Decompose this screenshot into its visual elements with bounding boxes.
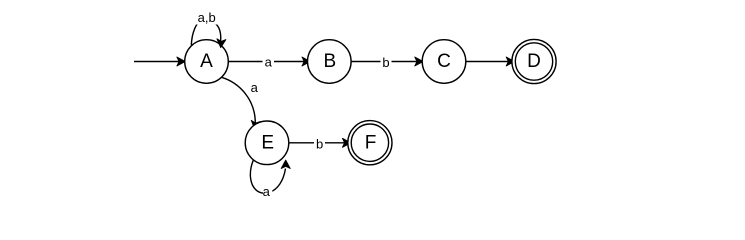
arrowhead into state D <box>506 57 514 66</box>
svg-text:a: a <box>251 80 259 95</box>
wire initial arrow shaft <box>134 61 179 63</box>
wire B to C shaft <box>351 61 417 63</box>
svg-text:a: a <box>263 184 271 199</box>
arrowhead into state A <box>177 57 185 66</box>
arrowhead into state B <box>302 57 310 66</box>
wire self-loop arc on E <box>250 160 285 193</box>
label a on E self-loop <box>263 188 272 198</box>
wire C to D shaft <box>466 61 509 63</box>
state E <box>245 121 289 165</box>
svg-text:A: A <box>200 51 213 72</box>
state C <box>422 40 466 84</box>
wire A to E curved shaft <box>222 77 256 123</box>
arrowhead of A self-loop <box>217 39 226 48</box>
state F (accepting, double circle) <box>348 121 392 165</box>
svg-text:F: F <box>365 133 377 154</box>
svg-text:E: E <box>261 133 274 154</box>
wire C to D <box>466 57 515 66</box>
self-loop on A <box>191 10 226 48</box>
svg-text:C: C <box>437 51 451 72</box>
wire A to B shaft <box>228 61 304 63</box>
label b on edge E-F <box>314 137 325 149</box>
label a,b on A self-loop <box>196 13 218 25</box>
arrowhead into state F <box>342 138 350 147</box>
svg-text:D: D <box>527 51 541 72</box>
svg-text:B: B <box>323 51 336 72</box>
wire A to B, label a <box>228 55 310 70</box>
svg-text:b: b <box>316 136 323 151</box>
state B <box>308 40 352 84</box>
label a on edge A-E <box>249 83 260 94</box>
label b on edge B-C <box>381 56 392 68</box>
wire E to F, label b <box>289 136 351 151</box>
wire A to E (curved), label a <box>222 77 261 129</box>
wire B to C, label b <box>351 55 423 70</box>
svg-text:a,b: a,b <box>198 10 216 25</box>
label a on edge A-B <box>263 57 275 68</box>
svg-text:a: a <box>265 55 273 70</box>
state D (accepting, double circle) <box>512 39 556 83</box>
arrowhead into state E <box>251 120 260 129</box>
arrowhead into state C <box>415 57 423 66</box>
wire initial start arrow into A <box>134 57 185 66</box>
wire self-loop arc on A <box>191 20 220 46</box>
svg-text:b: b <box>382 55 389 70</box>
state A <box>185 40 229 84</box>
self-loop on E (bottom), label a <box>250 160 290 199</box>
arrowhead of E self-loop <box>281 160 290 168</box>
wire E to F shaft <box>289 142 345 144</box>
